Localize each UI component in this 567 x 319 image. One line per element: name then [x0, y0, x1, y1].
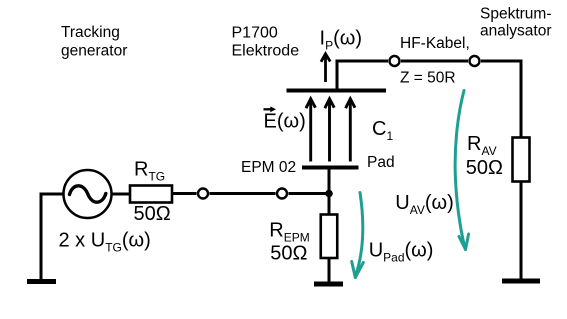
ground (middle) [314, 282, 343, 287]
terminal (open circle) 1 [198, 189, 208, 199]
capacitor C1 bottom plate (Pad) [302, 166, 359, 170]
AC source U1: 2 x UTG(omega) tracking generator [64, 170, 112, 218]
svg-text:Spektrum-: Spektrum- [480, 5, 552, 22]
svg-text:EPM 02: EPM 02 [241, 159, 296, 176]
voltage arrow UAV (teal) [455, 91, 468, 250]
svg-text:50Ω: 50Ω [134, 203, 171, 225]
svg-text:HF-Kabel,: HF-Kabel, [400, 35, 470, 52]
svg-text:E(ω): E(ω) [264, 110, 306, 132]
svg-text:Pad: Pad [367, 154, 395, 171]
wire: REPM to ground [328, 258, 331, 282]
svg-text:50Ω: 50Ω [466, 157, 503, 179]
voltage arrow UPad (teal) [352, 193, 364, 278]
svg-text:Elektrode: Elektrode [232, 43, 300, 60]
current arrow IP [321, 54, 330, 82]
wire: RTG to terminal 1 [172, 192, 197, 195]
wire: terminal 2 to pad node [289, 192, 330, 195]
E-field arrow 3 [346, 99, 355, 162]
E-field arrow 2 [325, 99, 334, 162]
svg-text:UAV(ω): UAV(ω) [395, 192, 454, 217]
wire: terminal 4 right and down to RAV [481, 61, 521, 138]
terminal (open circle) 4 [470, 56, 480, 66]
svg-text:P1700: P1700 [232, 24, 278, 41]
capacitor C1 top plate (P1700 electrode) [287, 89, 387, 93]
svg-text:2 x UTG(ω): 2 x UTG(ω) [59, 229, 151, 254]
resistor REPM [321, 215, 338, 259]
wire: bottom plate to junction to REPM [328, 168, 331, 215]
svg-text:analysator: analysator [480, 23, 552, 40]
svg-text:50Ω: 50Ω [270, 243, 307, 265]
ground (left) [27, 279, 56, 284]
resistor RAV [513, 138, 530, 182]
wire: source to RTG [112, 193, 131, 196]
E-field arrow 1 [306, 99, 315, 162]
svg-text:Tracking: Tracking [61, 24, 120, 41]
wire: HF cable between terminals [401, 60, 468, 63]
svg-text:Z = 50R: Z = 50R [400, 70, 456, 87]
wire: top plate up and right (HF cable) to terminal 3 [337, 61, 388, 91]
vector arrow over E [264, 106, 277, 112]
terminal (open circle) 3 [390, 56, 400, 66]
wire: terminal 1 to terminal 2 [210, 192, 276, 195]
terminal (open circle) 2 [277, 189, 287, 199]
wire: RAV to ground [520, 182, 523, 280]
wire: source left to ground [41, 194, 64, 280]
resistor RTG [130, 186, 172, 203]
svg-text:generator: generator [61, 42, 127, 59]
ground (right) [502, 279, 540, 284]
node: pad junction (dot) [325, 190, 333, 198]
